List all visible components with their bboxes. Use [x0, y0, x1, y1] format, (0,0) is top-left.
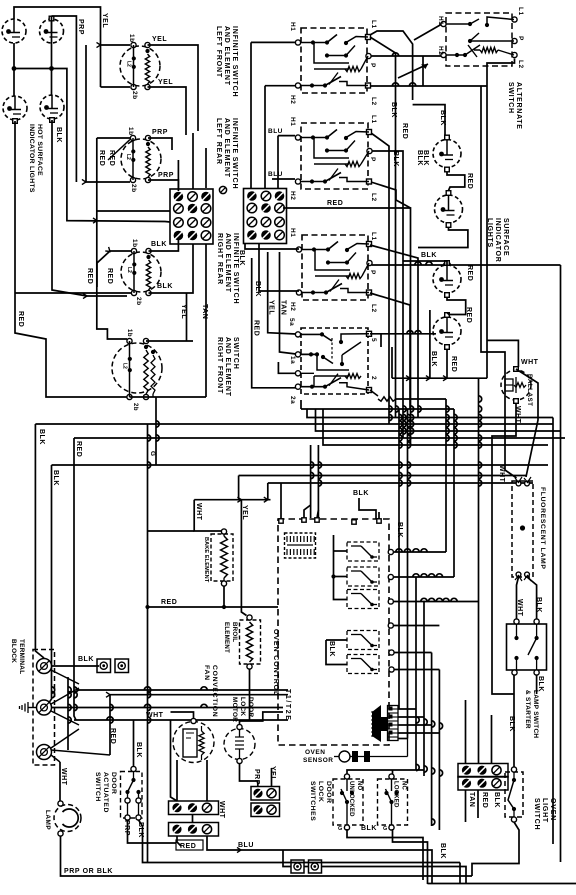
- wire tb fanout: [51, 670, 79, 684]
- svg-text:P: P: [369, 63, 376, 68]
- svg-text:L2: L2: [517, 60, 524, 69]
- wire S2 out top: [148, 138, 172, 150]
- wire B4 feed t4 RED: [252, 258, 296, 388]
- wire rail x407: [407, 409, 409, 739]
- wire indicator A to C: [13, 43, 15, 96]
- wire ind4 bottom down: [446, 350, 448, 379]
- wire bus BLK y465: [48, 465, 52, 704]
- svg-text:RED: RED: [98, 150, 105, 166]
- svg-text:H2: H2: [289, 302, 296, 311]
- door actuated switch: [121, 772, 143, 819]
- convection fan: [173, 722, 214, 763]
- ballast: [501, 370, 531, 400]
- wire relay k4 left: [326, 639, 347, 641]
- svg-text:YEL: YEL: [241, 505, 248, 520]
- wire ind3 top BLK: [444, 261, 447, 265]
- hot surface indicator light C: [3, 96, 27, 120]
- wire oc drops join: [304, 505, 311, 518]
- svg-text:BLK: BLK: [328, 641, 335, 657]
- svg-text:PRP: PRP: [253, 769, 260, 785]
- wire ts6 down b: [477, 791, 479, 819]
- surface unit switch B4 (dashed box): [301, 328, 368, 394]
- wire trunk x96: [97, 138, 127, 339]
- svg-text:BLK: BLK: [238, 250, 245, 266]
- wire yel ts3: [271, 768, 273, 786]
- wire bus y417: [307, 409, 553, 418]
- svg-text:H2: H2: [289, 191, 296, 200]
- wire S4 out top: [146, 340, 193, 342]
- wire S3 2b bus: [15, 292, 131, 294]
- svg-text:LAMP: LAMP: [44, 810, 51, 830]
- wire RED y607: [148, 606, 279, 608]
- svg-text:BLK: BLK: [151, 241, 167, 248]
- wire B2 H2 feed: [272, 178, 295, 180]
- svg-text:WHT: WHT: [218, 801, 225, 819]
- svg-text:P: P: [517, 36, 524, 41]
- wire TB2 down lines: [245, 244, 296, 250]
- wire oc top t1: [280, 483, 282, 519]
- screw L1 main: [37, 659, 52, 674]
- wire S3 out bottom: [149, 244, 194, 294]
- svg-text:RED: RED: [108, 150, 115, 166]
- svg-text:G: G: [338, 826, 343, 832]
- svg-text:L1: L1: [370, 20, 377, 29]
- oven control top terminals: [279, 519, 283, 523]
- hot surface indicator light A: [2, 19, 26, 43]
- svg-text:RED: RED: [466, 265, 473, 281]
- svg-text:G: G: [383, 826, 388, 832]
- square terminal b: [115, 659, 129, 673]
- wire bundle x431: [431, 653, 433, 827]
- transformer T1: [372, 705, 381, 742]
- wire YEL branch S1-2b: [101, 86, 131, 88]
- wire ind1 top BLK: [413, 105, 445, 135]
- wire fluor bottom right: [527, 577, 537, 619]
- svg-text:L2: L2: [122, 363, 128, 369]
- svg-text:RED: RED: [106, 268, 113, 284]
- wire aux trunk x86: [86, 45, 130, 182]
- infinite switch S2 left rear: [121, 139, 161, 179]
- svg-text:L1: L1: [370, 232, 377, 241]
- svg-text:BLK: BLK: [392, 151, 399, 167]
- wire lamp bottom: [61, 836, 473, 876]
- terminal strip TS1: [169, 801, 219, 815]
- wire ind2-ind3: [418, 228, 468, 248]
- wire B4 out 5: [370, 334, 381, 347]
- wire WHT y720: [74, 719, 288, 721]
- svg-text:RED: RED: [253, 320, 260, 336]
- wire oven light top: [513, 694, 515, 767]
- svg-text:RED: RED: [75, 441, 82, 457]
- wire door lock feeds: [347, 770, 424, 774]
- terminal strip TS2: [169, 823, 219, 837]
- wire TB1 risers top: [177, 160, 179, 189]
- wire x147 drop: [147, 424, 149, 607]
- terminal strip TS5: [458, 764, 508, 778]
- wire bundle x439: [438, 670, 440, 831]
- square terminal d: [309, 860, 322, 873]
- svg-text:BLK: BLK: [390, 102, 397, 118]
- relay K1: [347, 542, 379, 561]
- svg-text:BLK: BLK: [38, 429, 45, 445]
- terminal block TB1 (infinite switches left): [170, 189, 213, 244]
- svg-text:WHT: WHT: [516, 599, 523, 617]
- svg-text:L2: L2: [370, 193, 377, 202]
- svg-text:WHT: WHT: [60, 768, 67, 786]
- wire ts6 down a: [465, 791, 467, 823]
- svg-text:BLK: BLK: [353, 490, 369, 497]
- wire ind3-ind4: [447, 298, 466, 315]
- lamp switch and starter: [507, 624, 547, 670]
- svg-text:BLK: BLK: [439, 843, 446, 859]
- wire TB2 risers top: [250, 42, 252, 188]
- wire oven light bottom: [472, 822, 519, 876]
- svg-text:BLU: BLU: [238, 842, 254, 849]
- wire lamp sw loop bottom: [513, 675, 515, 694]
- wire B1 P right: [372, 55, 442, 57]
- surface indicator light 1: [433, 140, 461, 168]
- wire top YEL bus: [14, 7, 101, 87]
- wire indicator C RED down: [15, 121, 127, 397]
- wire S3 out top: [149, 240, 179, 251]
- svg-text:FLUORESCENT LAMP: FLUORESCENT LAMP: [539, 487, 546, 570]
- screw spare between blocks: [219, 186, 226, 193]
- screw L2 main: [37, 745, 52, 760]
- square terminal c: [291, 860, 304, 873]
- wire long bus y409: [300, 400, 302, 409]
- wire B1 L1 up: [370, 31, 413, 100]
- svg-text:BLK: BLK: [254, 281, 261, 297]
- wire B2 L1 diag: [371, 133, 389, 424]
- wire fluor bottom left: [517, 577, 519, 619]
- clock connector: [285, 533, 316, 558]
- svg-text:2a: 2a: [289, 396, 296, 404]
- svg-text:H1: H1: [289, 117, 296, 126]
- wire motor bottom: [240, 764, 258, 787]
- svg-text:RED: RED: [86, 268, 93, 284]
- terminal strip TS3: [251, 787, 280, 801]
- lamp: [54, 805, 81, 832]
- wire lamp sw bottom right: [536, 675, 538, 694]
- wire S3 1b feed: [97, 251, 131, 287]
- svg-text:L2: L2: [125, 154, 131, 160]
- svg-text:BLK: BLK: [537, 676, 544, 692]
- svg-text:L2: L2: [370, 97, 377, 106]
- wire node line y378: [392, 377, 487, 379]
- wire y707 bus: [52, 707, 284, 709]
- svg-text:YEL: YEL: [268, 300, 275, 315]
- svg-text:WHT: WHT: [514, 406, 521, 424]
- oven light switch: [505, 772, 523, 817]
- wire bus BLK y424: [35, 424, 44, 658]
- infinite switch S1 left front: [120, 46, 160, 86]
- svg-text:H1: H1: [289, 22, 296, 31]
- svg-text:RED: RED: [180, 843, 196, 850]
- svg-text:BLK: BLK: [52, 470, 59, 486]
- wire ballast diag to lamp: [516, 369, 538, 477]
- wire rail x446 down: [445, 399, 447, 552]
- fluorescent lamp: [512, 481, 533, 577]
- svg-text:BLK: BLK: [416, 150, 423, 166]
- terminal block TB2 (infinite switches right): [244, 189, 287, 244]
- wire squares bus: [283, 850, 291, 867]
- wire bundle x416: [415, 577, 417, 770]
- terminal strip TS6: [458, 777, 508, 791]
- wire B1 H2 feed: [265, 85, 295, 87]
- wire S4 bottom bus: [130, 396, 207, 398]
- oven sensor: [339, 751, 350, 762]
- svg-text:H2: H2: [289, 95, 296, 104]
- wire fan wires: [171, 720, 178, 801]
- svg-text:PRP: PRP: [158, 172, 174, 179]
- svg-text:RED: RED: [466, 173, 473, 189]
- relay K5: [347, 655, 379, 674]
- wire PRP trunk: [52, 16, 77, 182]
- wire das blk down: [139, 820, 461, 863]
- svg-text:SENSOR: SENSOR: [303, 757, 333, 764]
- svg-text:2b: 2b: [132, 403, 138, 411]
- wire TB1 riser tan: [205, 244, 207, 398]
- wire node line y399: [396, 398, 446, 400]
- wire motor top: [240, 712, 284, 725]
- svg-text:BAKE ELEMENT: BAKE ELEMENT: [203, 537, 209, 583]
- svg-text:2b: 2b: [131, 91, 138, 100]
- door lock switch B: [378, 779, 408, 825]
- wire B3 P right: [372, 264, 561, 266]
- svg-text:PRP OR BLK: PRP OR BLK: [64, 868, 113, 875]
- wire oc drop x318: [317, 445, 319, 518]
- wire y690 bus: [79, 689, 288, 691]
- wire ts1-ts2 links: [192, 815, 194, 823]
- terminal block main (dashed): [33, 650, 55, 766]
- relay K4: [347, 631, 379, 650]
- wire TB1 riser yel: [186, 293, 188, 341]
- svg-text:RED: RED: [465, 307, 472, 323]
- svg-text:YEL: YEL: [180, 304, 187, 319]
- wire B1 L2 bus y86: [370, 85, 487, 87]
- broil element: [240, 620, 261, 664]
- svg-text:BLK: BLK: [439, 110, 446, 126]
- square terminal a: [97, 659, 111, 673]
- wire bake top feed: [194, 500, 221, 531]
- svg-text:WHT: WHT: [498, 465, 505, 483]
- svg-text:BLU: BLU: [268, 128, 283, 135]
- wire ind4 blk: [429, 310, 431, 378]
- wire blu bus: [207, 836, 432, 884]
- svg-text:WHT: WHT: [146, 712, 164, 719]
- node junction A bus: [12, 66, 17, 71]
- wire S1 out bottom: [148, 87, 187, 135]
- infinite switch S3 right rear: [121, 252, 161, 292]
- wire indicator D RED down: [52, 120, 127, 296]
- wire rail x478 down: [478, 431, 480, 764]
- wire fan vertical x68: [67, 677, 69, 750]
- svg-text:L1: L1: [370, 115, 377, 124]
- svg-text:P: P: [369, 157, 376, 162]
- oven control box (dashed): [278, 519, 389, 745]
- svg-text:RED: RED: [450, 356, 457, 372]
- wire das prp down: [128, 820, 177, 843]
- svg-text:PRP: PRP: [77, 19, 84, 35]
- wire tb top right: [52, 665, 100, 667]
- svg-text:BLK: BLK: [421, 252, 437, 259]
- svg-text:BLK: BLK: [430, 351, 437, 367]
- wire B3 H2 feed: [296, 290, 299, 292]
- svg-text:1b: 1b: [126, 329, 132, 337]
- wire alt L2 down: [487, 59, 515, 87]
- wire y694 RED bus: [110, 695, 288, 755]
- wire rail x399: [398, 409, 400, 709]
- relay K3: [347, 590, 379, 609]
- svg-text:BLK: BLK: [55, 127, 62, 143]
- wire ts5 risers: [465, 700, 467, 764]
- wire B4 feed t2 TAN: [280, 252, 297, 354]
- svg-text:YEL: YEL: [158, 79, 173, 86]
- surface unit switch B3 (dashed box): [302, 235, 368, 300]
- svg-text:L2: L2: [126, 61, 132, 67]
- svg-text:2: 2: [370, 376, 377, 380]
- alternate switch (dashed box): [446, 13, 512, 66]
- wire YEL branch S1-1b: [101, 44, 131, 46]
- wire y499 link: [194, 499, 270, 501]
- surface unit switch B1 (dashed box): [301, 28, 367, 93]
- oven control right terminals: [388, 549, 393, 554]
- wire bus y431: [316, 409, 561, 431]
- wire RED bus y208: [283, 208, 411, 445]
- label RED boxed: [176, 840, 203, 850]
- wire B2 L2 diag: [371, 182, 411, 208]
- wire BLK oc: [359, 498, 376, 519]
- svg-text:1b: 1b: [128, 34, 135, 43]
- svg-text:H1: H1: [289, 228, 296, 237]
- svg-text:YEL: YEL: [269, 766, 276, 781]
- svg-text:BLK: BLK: [535, 597, 542, 613]
- svg-text:BLK: BLK: [78, 656, 94, 663]
- svg-text:WHT: WHT: [521, 359, 539, 366]
- svg-text:PRP: PRP: [152, 129, 168, 136]
- wire yel drop: [241, 500, 246, 616]
- door lock motor: [224, 729, 255, 760]
- svg-text:1a: 1a: [289, 356, 296, 364]
- surface indicator light 3: [433, 265, 461, 293]
- svg-text:OVEN: OVEN: [305, 749, 325, 756]
- svg-text:YEL: YEL: [152, 36, 167, 43]
- svg-text:RED: RED: [161, 599, 177, 606]
- wire G drop: [155, 397, 157, 465]
- svg-text:TAN: TAN: [280, 300, 287, 315]
- wire B3 L1 diag: [370, 245, 418, 418]
- wire BLK bus y258: [403, 260, 444, 262]
- surface unit switch B2 (dashed box): [301, 123, 368, 189]
- surface indicator light 4: [433, 317, 461, 345]
- wire B3 H1 feed: [296, 248, 299, 250]
- wire relay bus left: [334, 535, 348, 600]
- wire doorlock bottoms: [347, 829, 423, 880]
- terminal strip TS4: [251, 803, 280, 817]
- node junction arrows: [97, 42, 101, 47]
- svg-text:L2: L2: [370, 304, 377, 313]
- svg-text:RED: RED: [17, 311, 24, 327]
- wire lamp feed: [59, 762, 61, 802]
- svg-text:5: 5: [370, 338, 377, 342]
- svg-text:WHT: WHT: [195, 503, 202, 521]
- wire bus RED y438: [74, 438, 76, 720]
- svg-text:P: P: [369, 270, 376, 275]
- svg-text:TAN: TAN: [468, 792, 475, 807]
- wire alt pointer: [398, 64, 428, 78]
- wire B2 P right: [372, 151, 404, 438]
- wire B3 L2 diag: [370, 293, 410, 409]
- wire S1 out top: [148, 45, 199, 131]
- hot surface indicator light D: [40, 95, 64, 119]
- wire ballast down: [492, 404, 516, 695]
- svg-text:RED: RED: [109, 728, 116, 744]
- wire rail x481: [481, 86, 517, 478]
- node junction B bus: [49, 66, 54, 71]
- svg-text:RED: RED: [481, 792, 488, 808]
- wire bus y475: [238, 476, 240, 500]
- svg-text:L1: L1: [517, 7, 524, 16]
- screw N main: [37, 700, 52, 715]
- wire B4 feed t1 YEL: [268, 252, 296, 334]
- ground symbol: [28, 707, 36, 709]
- wire das top: [133, 720, 135, 767]
- wire bundle x424: [423, 602, 425, 777]
- svg-text:PRP: PRP: [123, 820, 130, 836]
- svg-text:H2: H2: [437, 46, 444, 55]
- wire ind1-ind2: [447, 172, 465, 191]
- wire bus y483: [267, 483, 269, 500]
- wire transformer outputs: [398, 708, 416, 710]
- wire rail x478b: [478, 378, 480, 431]
- wire ts2 red out: [177, 836, 181, 846]
- wire broil bottom: [249, 669, 251, 720]
- svg-text:RED: RED: [401, 123, 408, 139]
- wire S2 1b feed: [97, 137, 130, 139]
- svg-text:2b: 2b: [135, 297, 142, 306]
- svg-text:L2: L2: [126, 267, 132, 273]
- wire B1 L1 diag: [370, 37, 396, 418]
- wire B4 feed t3: [278, 362, 296, 373]
- door lock switch A: [333, 779, 363, 825]
- svg-text:BLK: BLK: [157, 283, 173, 290]
- wire bottom bus y862: [459, 863, 461, 884]
- wire BLK bus y68: [14, 69, 170, 223]
- svg-text:YEL: YEL: [101, 13, 108, 28]
- wire relay outputs: [394, 551, 446, 553]
- wire B1 H1 feed: [251, 41, 295, 43]
- surface indicator light 2: [435, 195, 463, 223]
- wire rail x487: [486, 86, 488, 378]
- svg-text:BLK: BLK: [135, 742, 142, 758]
- wire right rail x560: [560, 265, 562, 862]
- svg-text:OVEN CONTROL: OVEN CONTROL: [272, 629, 279, 696]
- hot surface indicator light B: [40, 19, 64, 43]
- wire right rail x553: [552, 418, 554, 845]
- wire alt H1 diag: [414, 25, 441, 41]
- svg-text:1b: 1b: [127, 127, 134, 136]
- svg-text:BLK: BLK: [361, 825, 377, 832]
- svg-text:1b: 1b: [131, 239, 138, 248]
- svg-text:2b: 2b: [130, 184, 137, 193]
- wire rail x454 down: [453, 409, 455, 577]
- wire indicator B to D: [51, 16, 53, 96]
- svg-text:BLK: BLK: [493, 792, 500, 808]
- wire S2 out bottom: [148, 180, 178, 191]
- svg-text:RED: RED: [327, 200, 343, 207]
- svg-text:G: G: [149, 451, 156, 457]
- svg-text:BLK: BLK: [422, 150, 429, 166]
